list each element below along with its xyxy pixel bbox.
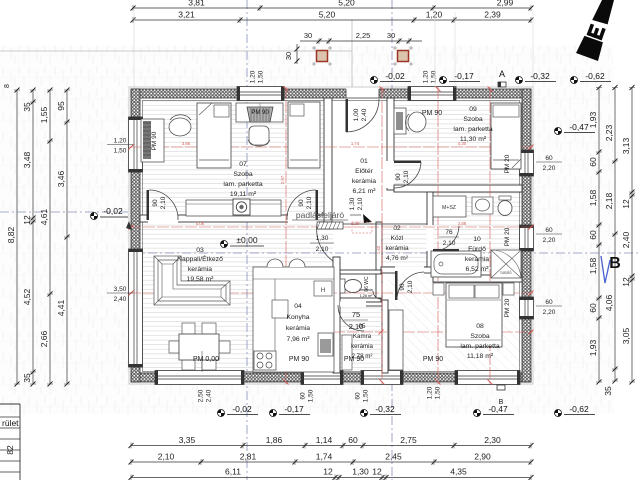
svg-text:2,40: 2,40 [206,389,213,402]
svg-text:35: 35 [22,102,32,112]
svg-text:PM 90: PM 90 [151,131,158,150]
attic leader line and arrow [350,214,361,216]
svg-text:76: 76 [445,229,453,236]
svg-text:PM 90: PM 90 [289,356,309,363]
svg-text:2,45: 2,45 [385,452,402,462]
svg-text:19,11 m²: 19,11 m² [230,191,257,198]
svg-text:60: 60 [588,157,598,167]
svg-text:60: 60 [545,299,553,306]
svg-text:1,58: 1,58 [588,257,598,274]
svg-text:1,20: 1,20 [426,10,443,20]
svg-text:1,50: 1,50 [435,386,442,399]
svg-text:kerámia: kerámia [351,343,374,350]
room 09 chair [408,112,426,132]
room 07 chair 2 [249,126,269,145]
kitchen counter outline [253,267,334,372]
dimension chain x=599 [598,88,600,383]
elevation marker -0,62 [555,410,562,417]
svg-text:1,55: 1,55 [39,106,49,123]
exterior wall left [131,89,140,382]
kitchen sink bowls [267,259,283,267]
interior wall corridor bottom wall [381,267,433,273]
svg-text:M+SZ: M+SZ [442,205,456,211]
svg-text:3,35: 3,35 [179,435,196,445]
dimension chain x=33 [32,90,34,384]
svg-text:3,50: 3,50 [114,286,127,293]
elevation label +-0,00 [221,241,228,248]
svg-text:kerámia: kerámia [352,178,376,185]
svg-text:PM 20: PM 20 [504,227,511,246]
area table bottom left [0,403,20,405]
svg-text:2,10: 2,10 [316,246,329,253]
red section line horizontal y=147 [129,146,533,148]
svg-text:2,40: 2,40 [621,231,631,248]
svg-text:01: 01 [360,158,368,165]
svg-text:4,06: 4,06 [604,294,614,311]
building outer insulation line [129,87,533,384]
svg-text:Előtér: Előtér [355,168,373,175]
svg-text:6,21 m²: 6,21 m² [352,188,376,195]
svg-text:8: 8 [4,84,11,88]
dimension chain y=477.5 [131,477,531,479]
room 03 dining table [179,334,219,360]
axis line vertical x=247 [246,0,248,480]
svg-text:1,50: 1,50 [431,70,438,83]
svg-text:-0,17: -0,17 [454,71,474,81]
svg-text:6,52 m²: 6,52 m² [465,266,489,273]
room 10 floor [433,192,522,276]
svg-text:1,20: 1,20 [114,138,127,145]
svg-text:35: 35 [603,386,613,396]
svg-text:3,05: 3,05 [621,327,631,344]
room 08 nightstand right [503,283,514,295]
svg-text:1,30: 1,30 [349,197,356,210]
room 07 bed 2 [288,102,320,168]
svg-text:09: 09 [469,106,477,113]
svg-text:1,74: 1,74 [351,141,360,146]
svg-text:30: 30 [284,52,293,60]
svg-text:12: 12 [22,215,32,225]
svg-text:3,86: 3,86 [182,141,191,146]
svg-text:5,20: 5,20 [319,10,336,20]
svg-text:2,10: 2,10 [160,196,167,209]
dining chairs top [182,323,195,334]
column dimension 30/2,25/30 [300,40,422,42]
window bottom wall kitchen [301,371,343,385]
column at 322,56 [312,47,316,49]
interior wall between 09 and bath [394,185,522,192]
dimension chain y=20 [133,19,531,21]
svg-text:±0,00: ±0,00 [236,235,257,245]
section axis horizontal right y=253 [131,252,640,254]
svg-text:-0,62: -0,62 [569,404,589,414]
interior inner leaf line [143,101,520,372]
svg-text:-0,02: -0,02 [103,206,123,216]
window top wall room 07 [237,87,284,101]
svg-text:2,10: 2,10 [357,197,364,210]
room 07 chair 1 [169,118,191,136]
svg-text:PM 20: PM 20 [504,154,511,173]
svg-text:60: 60 [588,230,598,240]
svg-text:kerámia: kerámia [286,325,310,332]
svg-text:82: 82 [5,445,15,455]
room 07 tv cabinet [186,200,281,216]
svg-text:4,35: 4,35 [450,467,467,477]
elevation marker -0,32 [516,77,523,84]
svg-text:1,50: 1,50 [114,148,127,155]
window left wall room 07 [129,117,143,172]
window right wall room 08 [520,297,534,319]
door room 07 left leaf and arc [147,190,150,220]
svg-text:-0,32: -0,32 [375,404,395,414]
svg-text:1,26 m²: 1,26 m² [360,294,374,298]
kitchen stove [254,351,276,370]
red section line vertical x=286 [285,87,287,384]
svg-text:2,18: 2,18 [604,192,614,209]
svg-text:1,58: 1,58 [588,189,598,206]
room 08 floor diagonal [388,273,522,373]
svg-text:Konyha: Konyha [286,314,309,321]
interior wall wc left wall [336,270,340,302]
svg-text:75: 75 [352,310,360,319]
dimension chain x=615 [614,88,616,382]
bathtub [431,251,481,277]
dimension chain y=8 [133,7,531,9]
svg-text:3,21: 3,21 [178,10,195,20]
light guide verticals top [133,12,135,88]
svg-text:PM 90: PM 90 [251,110,269,116]
svg-text:2,99: 2,99 [497,0,514,8]
door living room arc (1,30) [317,224,333,261]
svg-text:04: 04 [294,303,302,310]
room 09 bed [491,103,521,169]
room 08 bed [446,283,502,347]
column at 403,56 [393,47,397,49]
svg-text:1,20: 1,20 [423,70,430,83]
interior wall between 02 and 10 [427,192,433,270]
window bottom wall room 03 [155,371,244,385]
interior wall between 07 and 03 [140,215,324,222]
kamra shelf [342,335,352,370]
svg-text:3,81: 3,81 [188,0,205,8]
room 07 wardrobe PM 90 [247,107,273,122]
dimension chain x=50 [49,90,51,384]
svg-text:2,40: 2,40 [361,108,368,121]
svg-text:1,93: 1,93 [588,339,598,356]
room 05 floor [340,305,381,373]
door room 09 arc [394,161,421,164]
kitchen counter notch [272,300,288,318]
interior wall corridor left wall [376,222,382,302]
svg-text:1,50: 1,50 [258,70,265,83]
svg-text:2,88: 2,88 [458,221,467,226]
svg-text:12: 12 [621,277,631,287]
entrance door leaf and arc [346,99,349,132]
door bath arc [433,249,459,252]
svg-text:90: 90 [399,283,406,291]
svg-text:Fürdő: Fürdő [468,246,486,253]
svg-text:1,00: 1,00 [353,108,360,121]
svg-text:30: 30 [387,31,395,40]
column vertical dim 30 [296,44,298,64]
svg-text:10: 10 [473,236,481,243]
svg-text:2,30: 2,30 [484,435,501,445]
svg-text:PM 90: PM 90 [344,356,364,363]
svg-text:rület: rület [2,418,19,428]
svg-text:5,06: 5,06 [196,221,205,226]
svg-text:PM 90: PM 90 [422,110,442,117]
elevation marker -0,47 [555,128,562,135]
svg-text:Közl: Közl [391,235,404,242]
dining chairs sides [169,341,179,353]
kitchen tall unit fridge [318,333,333,356]
wc toilet [340,279,345,293]
svg-text:60: 60 [300,392,307,400]
svg-text:2,10: 2,10 [407,280,414,293]
svg-text:kerámia: kerámia [359,288,373,292]
interior wall wc top wall [336,270,381,274]
dimension chain y=462 [131,461,531,463]
dining chairs bottom [182,360,195,370]
elevation marker -0,32 [361,410,368,417]
corridor top threshold line [333,223,427,225]
dimension chain x=17 [16,90,18,384]
room 08 wardrobe [389,310,403,370]
svg-text:35: 35 [22,373,32,383]
svg-text:1,30: 1,30 [316,235,329,242]
door kamra arc [338,305,364,331]
svg-text:Szoba: Szoba [233,171,252,178]
svg-text:12: 12 [621,199,631,209]
svg-text:-0,47: -0,47 [569,122,589,132]
svg-text:03: 03 [196,247,204,254]
interior wall between 01 and 09 [387,98,394,190]
svg-text:kerámia: kerámia [465,256,489,263]
window centerline to table [201,351,203,372]
svg-text:H: H [321,288,325,294]
room 09 floor parquet [394,98,522,185]
svg-text:2,90: 2,90 [474,452,491,462]
svg-text:90: 90 [395,173,402,181]
svg-text:1,20: 1,20 [427,386,434,399]
svg-text:tusoló: tusoló [500,270,512,275]
svg-text:1,50: 1,50 [308,389,315,402]
svg-text:kerámia: kerámia [385,245,409,252]
svg-text:2,25: 2,25 [356,31,371,40]
door room 07 right leaf and arc [316,190,319,220]
interior wall wc bottom wall [332,298,381,302]
svg-text:lam. parketta: lam. parketta [453,126,493,133]
attic opening dashed outline [352,222,372,233]
dimension chain y=445.5 [131,445,531,447]
door opening in V2 [387,161,395,188]
svg-text:A: A [499,69,505,79]
svg-text:11,30 m²: 11,30 m² [460,136,487,143]
svg-text:3,13: 3,13 [621,137,631,154]
svg-text:60: 60 [348,435,358,445]
interior wall between 07 and 01 [324,98,332,222]
door room 08 leaf and arc [395,271,398,300]
door opening in V3 bath door [427,225,434,251]
svg-text:-0,02: -0,02 [232,404,252,414]
svg-text:8,82: 8,82 [6,226,16,243]
svg-text:-0,62: -0,62 [585,71,605,81]
svg-text:3,48: 3,48 [22,151,32,168]
svg-text:4,61: 4,61 [39,208,49,225]
door opening kamra [340,302,366,307]
svg-text:2,20: 2,20 [543,309,556,316]
svg-text:Szoba: Szoba [463,116,482,123]
svg-text:2,10: 2,10 [158,452,175,462]
north arrow [576,0,614,61]
svg-text:2,39: 2,39 [484,10,501,20]
svg-text:11,18 m²: 11,18 m² [467,353,494,360]
svg-text:2,97: 2,97 [280,175,285,184]
red section line horizontal y=227 [129,226,533,228]
svg-text:padlásfeljáró: padlásfeljáró [296,210,344,220]
svg-text:lam. parketta: lam. parketta [223,181,263,188]
svg-text:1,14: 1,14 [316,435,333,445]
svg-text:Szoba: Szoba [470,333,489,340]
svg-text:2,40: 2,40 [114,296,127,303]
svg-text:12: 12 [372,467,382,477]
dimension chain x=632 [631,88,633,383]
room 08 nightstand left [433,283,444,295]
svg-text:1,20: 1,20 [250,70,257,83]
elevation marker -0,17 [270,410,277,417]
room 03/04 floor [140,222,333,373]
svg-text:Kamra: Kamra [353,333,372,340]
room 07 desk [141,119,164,162]
svg-text:1,50: 1,50 [363,389,370,402]
window right wall room 09 [520,150,534,176]
svg-text:kerámia: kerámia [188,266,212,273]
interior wall between bath and 08 [433,275,522,282]
elevation marker -0,17 [440,77,447,84]
svg-text:-0,32: -0,32 [530,71,550,81]
door opening in H3 to room 08 [395,267,424,274]
svg-text:2,10: 2,10 [443,240,456,247]
svg-text:-0,02: -0,02 [385,71,405,81]
svg-text:60: 60 [588,303,598,313]
svg-text:95: 95 [56,101,66,111]
elevation marker -0,02 [218,410,225,417]
door opening in H1 right [288,215,318,223]
svg-text:4,76 m²: 4,76 m² [386,255,409,262]
svg-text:4,41: 4,41 [56,299,66,316]
bath washbasin [472,197,493,214]
elevation marker -0,62 [571,77,578,84]
svg-text:lam. parketta: lam. parketta [460,343,500,350]
svg-text:1,74: 1,74 [316,452,333,462]
svg-text:12: 12 [323,467,333,477]
bath closet M+SZ [433,196,466,217]
exterior wall bottom [131,373,531,382]
axis line vertical x=392 [391,0,393,89]
svg-text:02: 02 [393,225,401,232]
svg-text:PM 0,00: PM 0,00 [193,356,219,363]
svg-text:30: 30 [304,31,312,40]
svg-text:2,66: 2,66 [39,330,49,347]
small section marker bottom right x=499 [497,385,505,390]
window top wall room 09 [408,87,456,101]
svg-text:2,81: 2,81 [240,452,257,462]
room 07 tv [233,199,250,215]
svg-text:6,11: 6,11 [225,467,241,477]
section axis horizontal left y=212 [0,211,133,213]
svg-text:2,20: 2,20 [543,237,556,244]
svg-text:PM 90: PM 90 [423,356,443,363]
svg-text:4,52: 4,52 [22,288,32,305]
door opening in H1 left [148,215,178,223]
entrance door opening top wall [346,89,379,99]
bath toilet [499,196,511,200]
interior wall between kamra and 08 [382,300,388,373]
svg-text:2,50: 2,50 [198,389,205,402]
svg-text:2,75: 2,75 [400,435,417,445]
dimension chain x=67 [66,90,68,384]
svg-text:3,46: 3,46 [56,170,66,187]
elevation marker -0,47 [474,410,481,417]
svg-text:2,10: 2,10 [306,196,313,209]
svg-text:19,58 m²: 19,58 m² [187,276,215,283]
red section line horizontal y=332 [333,331,533,333]
svg-text:1,86: 1,86 [266,435,283,445]
red section line vertical x=490 [489,87,491,384]
svg-text:08: 08 [476,323,484,330]
window right wall bath [520,225,534,251]
svg-text:-0,17: -0,17 [284,404,304,414]
svg-text:1,93: 1,93 [588,111,598,128]
svg-text:B: B [609,255,621,272]
svg-text:2,10: 2,10 [403,170,410,183]
svg-text:1,30: 1,30 [352,467,369,477]
room 07 dresser under window [236,103,283,122]
svg-text:90: 90 [298,199,305,207]
red section line vertical x=382 [381,87,383,384]
svg-text:1,40: 1,40 [376,245,381,254]
interior wall kamra top wall [340,302,382,306]
attic hatch [317,222,343,229]
kitchen H box [314,281,332,296]
svg-text:60: 60 [545,227,553,234]
svg-text:60: 60 [355,392,362,400]
svg-text:07: 07 [239,161,247,168]
svg-text:2,20: 2,20 [543,165,556,172]
terrace window left wall room 03 [129,249,143,367]
site ground texture [0,46,613,414]
room 07 floor parquet [140,98,324,215]
elevation marker left [91,213,98,220]
room 09 desk [394,108,406,134]
svg-text:B: B [499,399,504,406]
svg-text:90: 90 [152,199,159,207]
svg-text:Nappali/Étkező: Nappali/Étkező [177,254,223,263]
site boundary line [0,50,352,52]
svg-text:5,20: 5,20 [338,0,355,8]
svg-text:7,96 m²: 7,96 m² [286,336,310,343]
room 07 bed 1 [197,103,231,168]
svg-text:60: 60 [545,155,553,162]
building interior white base [131,89,531,382]
exterior wall top [131,89,531,98]
shower corner [491,250,521,278]
red section line vertical x=438 [437,87,439,384]
elevation marker -0,02 [371,77,378,84]
door wc arc [373,291,381,299]
window bottom wall room 08 [455,371,520,385]
svg-text:2,23: 2,23 [604,124,614,141]
